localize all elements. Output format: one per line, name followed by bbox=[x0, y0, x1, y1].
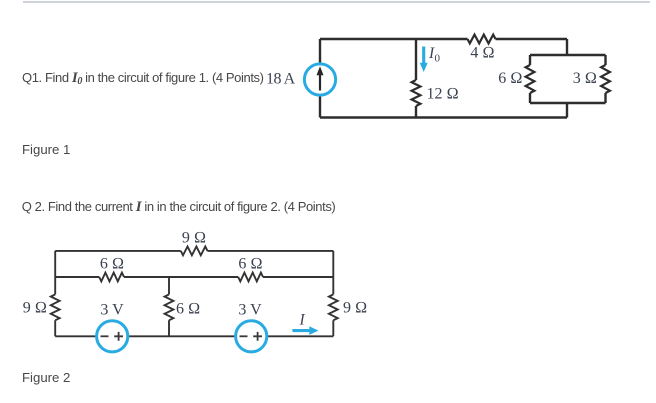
wire fig1 bottom rail bbox=[320, 116, 567, 118]
svg-text:6 Ω: 6 Ω bbox=[176, 301, 200, 318]
top divider line bbox=[23, 1, 650, 3]
current arrow I0 bbox=[420, 47, 428, 73]
value label 4 ohm bbox=[470, 45, 494, 62]
wire fig2 bottom rail bbox=[55, 335, 333, 337]
voltage source 3 V (left) bbox=[97, 321, 128, 352]
wire parallel block top rail bbox=[530, 54, 606, 56]
value label 9 ohm (left) bbox=[23, 300, 47, 317]
value label 6 ohm (fig1) bbox=[498, 70, 522, 87]
wire fig1 middle branch bbox=[415, 39, 417, 118]
value label 3 V (left) bbox=[100, 302, 124, 319]
value label 6 ohm (rail left) bbox=[100, 256, 124, 273]
resistor 9 ohm (left) bbox=[51, 294, 60, 320]
svg-text:9 Ω: 9 Ω bbox=[182, 230, 206, 247]
value label 18 A bbox=[266, 71, 296, 88]
question 2 text bbox=[22, 199, 336, 215]
wire fig2 top rail bbox=[55, 250, 333, 252]
svg-text:6 Ω: 6 Ω bbox=[238, 256, 262, 273]
current source 18 A bbox=[304, 64, 335, 95]
value label 9 ohm (right) bbox=[343, 300, 367, 317]
wire fig1 left branch bbox=[319, 39, 321, 118]
value label 6 ohm (middle branch) bbox=[176, 301, 200, 318]
wire fig1 right drop to parallel block bbox=[566, 39, 568, 118]
resistor 3 ohm (fig1) bbox=[601, 55, 610, 103]
svg-text:6 Ω: 6 Ω bbox=[498, 70, 522, 87]
value label 3 V (right) bbox=[238, 302, 262, 319]
node label I0 bbox=[428, 45, 441, 65]
svg-text:3 V: 3 V bbox=[100, 302, 124, 319]
svg-text:9 Ω: 9 Ω bbox=[23, 300, 47, 317]
wire fig2 middle branch bbox=[168, 277, 170, 336]
resistor 4 ohm (fig1 top) bbox=[468, 35, 496, 44]
resistor 6 ohm (rail left) bbox=[99, 273, 124, 282]
value label 12 ohm bbox=[427, 86, 459, 103]
value label 6 ohm (rail right) bbox=[238, 256, 262, 273]
wire fig1 top rail bbox=[320, 38, 567, 40]
svg-text:3 V: 3 V bbox=[238, 302, 262, 319]
svg-text:9 Ω: 9 Ω bbox=[343, 300, 367, 317]
node label I (fig2) bbox=[299, 312, 306, 329]
figure 1 caption bbox=[22, 142, 70, 157]
resistor 6 ohm (middle branch) bbox=[165, 294, 174, 320]
svg-text:I: I bbox=[299, 312, 306, 329]
wire fig2 right branch bbox=[332, 251, 334, 336]
svg-text:4 Ω: 4 Ω bbox=[470, 45, 494, 62]
resistor 6 ohm (rail right) bbox=[238, 273, 263, 282]
resistor 9 ohm (fig2 top) bbox=[181, 247, 208, 256]
svg-text:6 Ω: 6 Ω bbox=[100, 256, 124, 273]
resistor 12 ohm bbox=[412, 80, 421, 106]
svg-text:0: 0 bbox=[435, 53, 441, 65]
wire fig2 left branch bbox=[54, 251, 56, 336]
voltage source 3 V (right) bbox=[236, 321, 267, 352]
question 1 text bbox=[22, 70, 264, 89]
wire fig2 middle rail bbox=[55, 276, 333, 278]
resistor 6 ohm (fig1) bbox=[526, 55, 535, 103]
svg-text:3 Ω: 3 Ω bbox=[573, 70, 597, 87]
figure 2 caption bbox=[22, 370, 70, 385]
svg-text:18 A: 18 A bbox=[266, 71, 296, 88]
svg-text:12 Ω: 12 Ω bbox=[427, 86, 459, 103]
current arrow I (fig2) bbox=[292, 326, 318, 335]
wire parallel block bottom rail bbox=[530, 102, 606, 104]
value label 9 ohm (top) bbox=[182, 230, 206, 247]
resistor 9 ohm (right) bbox=[329, 294, 338, 320]
value label 3 ohm (fig1) bbox=[573, 70, 597, 87]
